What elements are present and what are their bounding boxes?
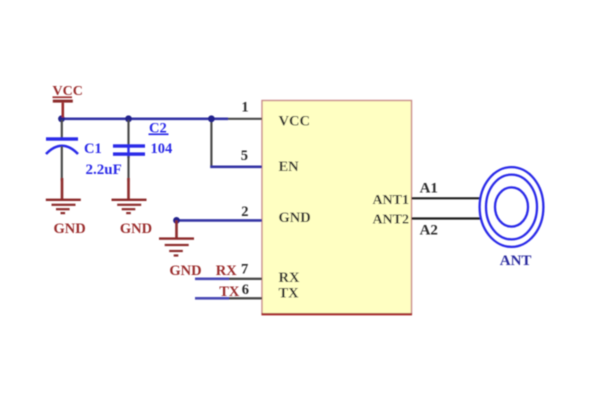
capacitor C1	[46, 120, 78, 181]
capacitor C2	[113, 120, 145, 181]
wire RX	[195, 277, 229, 280]
svg-text:6: 6	[242, 282, 249, 298]
ground GND1	[46, 178, 86, 237]
node junction GND3	[173, 217, 180, 224]
wire ANT2	[412, 217, 481, 219]
node junction C2	[125, 115, 132, 122]
svg-text:GND: GND	[120, 221, 152, 237]
svg-text:TX: TX	[279, 286, 300, 302]
svg-text:2: 2	[241, 204, 248, 220]
op-amp U1 IC body	[262, 101, 413, 315]
antenna ANT symbol	[480, 167, 544, 247]
svg-text:ANT: ANT	[500, 253, 532, 269]
power VCC symbol	[53, 84, 83, 118]
svg-text:RX: RX	[279, 270, 300, 286]
wire pin1 stub	[228, 118, 262, 120]
node junction VCC/C1	[58, 115, 65, 122]
ground GND3	[159, 220, 202, 278]
svg-text:TX: TX	[219, 284, 240, 300]
wire RX stub	[229, 278, 262, 280]
wire TX	[195, 297, 229, 300]
svg-text:EN: EN	[279, 159, 300, 175]
wire EN horizontal	[210, 166, 262, 169]
svg-text:C1: C1	[84, 141, 102, 157]
svg-text:GND: GND	[53, 221, 85, 237]
svg-text:RX: RX	[216, 263, 237, 279]
node junction EN branch	[208, 115, 215, 122]
wire main VCC bus	[62, 118, 229, 121]
label C2	[149, 121, 169, 137]
svg-text:7: 7	[241, 261, 248, 277]
svg-text:A2: A2	[420, 223, 438, 239]
svg-text:1: 1	[241, 100, 248, 116]
svg-text:104: 104	[151, 141, 173, 157]
wire GND pin2	[177, 219, 263, 222]
wire EN branch vertical	[210, 119, 212, 167]
svg-text:2.2uF: 2.2uF	[86, 162, 122, 178]
wire TX stub	[229, 297, 262, 299]
svg-text:ANT2: ANT2	[372, 213, 409, 228]
svg-text:ANT1: ANT1	[372, 193, 409, 208]
wire ANT1	[412, 197, 481, 199]
svg-text:VCC: VCC	[279, 114, 310, 130]
ground GND2	[112, 178, 153, 237]
svg-text:GND: GND	[279, 210, 311, 226]
svg-text:GND: GND	[169, 263, 201, 279]
svg-text:A1: A1	[420, 180, 438, 196]
svg-text:5: 5	[241, 148, 248, 164]
